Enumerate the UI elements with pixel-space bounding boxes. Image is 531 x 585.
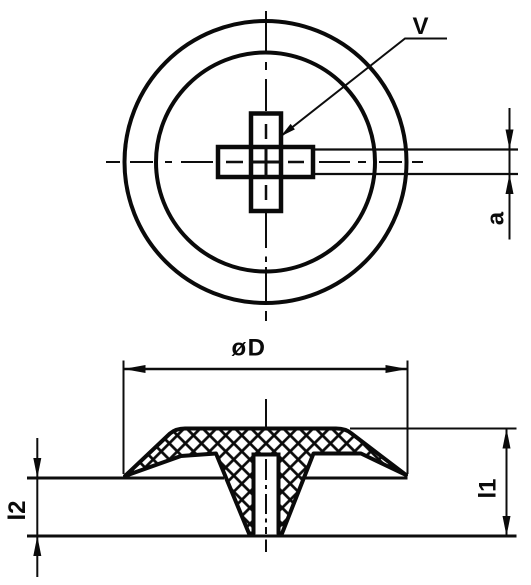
inner circle xyxy=(156,53,375,272)
slot hole outline xyxy=(254,455,279,535)
dimension l1 extension line xyxy=(350,428,517,430)
svg-text:l1: l1 xyxy=(475,478,502,498)
leader line V xyxy=(281,39,448,137)
svg-text:l2: l2 xyxy=(4,500,31,520)
section centerline xyxy=(265,399,267,552)
cross slot horizontal rectangle xyxy=(218,147,313,177)
dimension l2 line xyxy=(36,438,38,577)
dimension a extension lines xyxy=(313,150,518,175)
svg-text:V: V xyxy=(412,13,428,40)
seating line left xyxy=(27,477,224,480)
dimension l1 line xyxy=(506,429,508,537)
svg-text:a: a xyxy=(483,211,510,225)
svg-text:øD: øD xyxy=(232,335,267,362)
dimension D line xyxy=(124,368,408,371)
arm centerline dashes xyxy=(226,124,304,200)
leader arrowhead xyxy=(281,124,295,137)
center cross lines xyxy=(249,145,283,179)
outer circle xyxy=(125,21,407,303)
dimension D extension lines xyxy=(124,361,408,475)
dimension l1 arrows xyxy=(503,429,511,537)
top view vertical centerline xyxy=(265,11,267,321)
ground line xyxy=(27,535,517,538)
dimension a arrows xyxy=(506,130,514,195)
dimension D arrows xyxy=(124,365,408,373)
dimension l2 arrows xyxy=(33,458,41,556)
cross slot vertical rectangle xyxy=(251,114,281,212)
top view horizontal centerline xyxy=(106,161,423,163)
section body with crosshatch xyxy=(125,429,406,534)
seating line right xyxy=(300,477,408,480)
dimension a line xyxy=(509,108,511,240)
